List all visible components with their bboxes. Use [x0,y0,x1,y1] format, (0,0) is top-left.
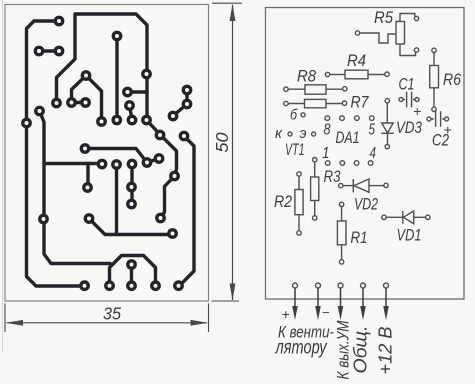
pad 27 [111,159,122,170]
op-amp U1 / IC DA1 pin pads [325,116,374,166]
resistor R5 [355,14,418,56]
pad 35 [155,213,166,224]
svg-text:лятору: лятору [275,338,328,359]
PCB board outline [5,5,209,302]
resistor R4 [325,70,389,79]
resistor R3 [311,158,319,221]
svg-text:R8: R8 [297,67,316,86]
dimension extension lines bottom [5,301,239,332]
wire pad stack link [130,164,133,204]
svg-text:R5: R5 [374,8,393,27]
resistor R8 [284,85,347,94]
svg-text:+: + [282,306,290,322]
dimension line 35 [6,320,208,326]
svg-text:+: + [413,103,421,119]
pad 6 [141,69,152,80]
arrow terminal 4 [362,288,364,308]
svg-text:б: б [290,107,297,124]
resistor R2 [295,172,303,235]
pad 11 [80,97,91,108]
pad 33 [38,214,49,225]
wire trace A [85,149,159,163]
pad 2 [112,31,123,42]
svg-text:50: 50 [212,132,232,152]
wire branch to pad at (127,92) [128,90,148,93]
pad 25 [154,153,165,164]
wire bar between pads [72,101,86,104]
svg-text:+12 В: +12 В [376,327,396,375]
terminal pads bottom row [293,283,389,288]
svg-text:4: 4 [370,145,377,162]
pad holes [25,19,190,288]
pad 14 [34,106,45,117]
pad 19 [127,115,138,126]
transistor VT1 pads [288,113,316,136]
svg-text:Общ.: Общ. [351,326,371,374]
svg-text:R7: R7 [351,93,369,112]
pad 9 [51,98,62,109]
svg-text:8: 8 [324,122,331,139]
wire dumbbell bottom [130,265,133,286]
dimension line 50 [230,4,236,301]
pad 38 [79,280,90,291]
pad 39 [104,280,115,291]
svg-text:к: к [275,125,283,142]
pad 42 [173,280,184,291]
wire trace T2 (main top rail) [57,14,148,120]
svg-text:5: 5 [369,122,376,139]
wire house-shape trace bottom [110,256,156,286]
wire stub down to pad [86,164,89,188]
svg-text:R1: R1 [351,228,368,247]
wire branch of V2 at y163 [44,162,102,165]
svg-text:VD1: VD1 [397,226,422,245]
pads of PCB [21,16,192,292]
diode VD2 [339,179,389,192]
svg-text:R2: R2 [274,192,292,211]
pad 40 [126,280,137,291]
resistor R1 [337,202,346,264]
svg-text:э: э [300,125,307,142]
arrow terminal 1 [294,288,296,308]
dimension extension line top [212,2,242,4]
pad 1 [54,16,65,27]
svg-text:R6: R6 [443,70,461,89]
pad 3 [34,46,45,57]
svg-text:−: − [322,305,330,320]
pad 36 [167,228,178,239]
component board outline [266,8,465,300]
pad 28 [127,159,138,170]
terminal arrows [292,288,389,320]
wire vertical trace [115,36,118,120]
pad 21 [155,130,166,141]
pad 4 [54,46,65,57]
pad 32 [126,199,137,210]
pad 24 [142,157,153,168]
pad 12 [182,99,193,110]
pad 41 [150,280,161,291]
pad 31 [126,182,137,193]
wire bottom horizontal with diagonal [89,219,173,235]
pad 17 [96,116,107,127]
wire trace T2 continuation diagonal [147,120,177,218]
resistor R6 [430,48,439,111]
wire dumbbell link [130,106,133,121]
pad 8 [122,87,133,98]
capacitor C1 [399,92,419,108]
svg-text:VD2: VD2 [354,195,378,214]
diode VD1 [382,211,430,224]
wire house-shape trace top [72,76,102,122]
arrow terminal 2 [317,288,319,308]
wire vertical to bottom horizontal [115,165,118,235]
scan edge line [2,0,4,352]
pad 16 [21,118,32,129]
svg-text:DA1: DA1 [336,128,360,147]
pad 7 [182,85,193,96]
pad 23 [80,143,91,154]
wire link pads pair [39,49,59,52]
svg-text:R4: R4 [347,51,366,70]
svg-text:VT1: VT1 [285,141,305,159]
pad 10 [66,97,77,108]
pad 30 [82,182,93,193]
wire right long vertical [180,136,195,286]
svg-text:C1: C1 [399,75,415,94]
pad 26 [97,159,108,170]
diode VD3 [381,99,394,149]
arrow terminal 3 [340,288,342,308]
wire chain of three pads [173,90,187,116]
pad 29 [169,171,180,182]
pad 20 [141,115,152,126]
svg-text:35: 35 [103,304,121,324]
svg-text:1: 1 [322,145,330,162]
pad 18 [111,115,122,126]
arrow terminal 5 [385,288,387,308]
pad 5 [81,70,92,81]
pad 13 [124,100,135,111]
wire trace V2 long left vertical [40,111,111,264]
pad 34 [84,213,95,224]
svg-text:VD3: VD3 [396,118,422,137]
capacitor C2 [427,111,449,127]
resistor R7 [284,99,347,107]
svg-text:+: + [444,122,452,138]
pad 22 [179,131,190,142]
wire trace T1 (top-left vertical rail to bottom) [27,21,85,286]
svg-text:R3: R3 [324,167,341,186]
pad 15 [168,111,179,122]
pad 37 [126,259,137,270]
